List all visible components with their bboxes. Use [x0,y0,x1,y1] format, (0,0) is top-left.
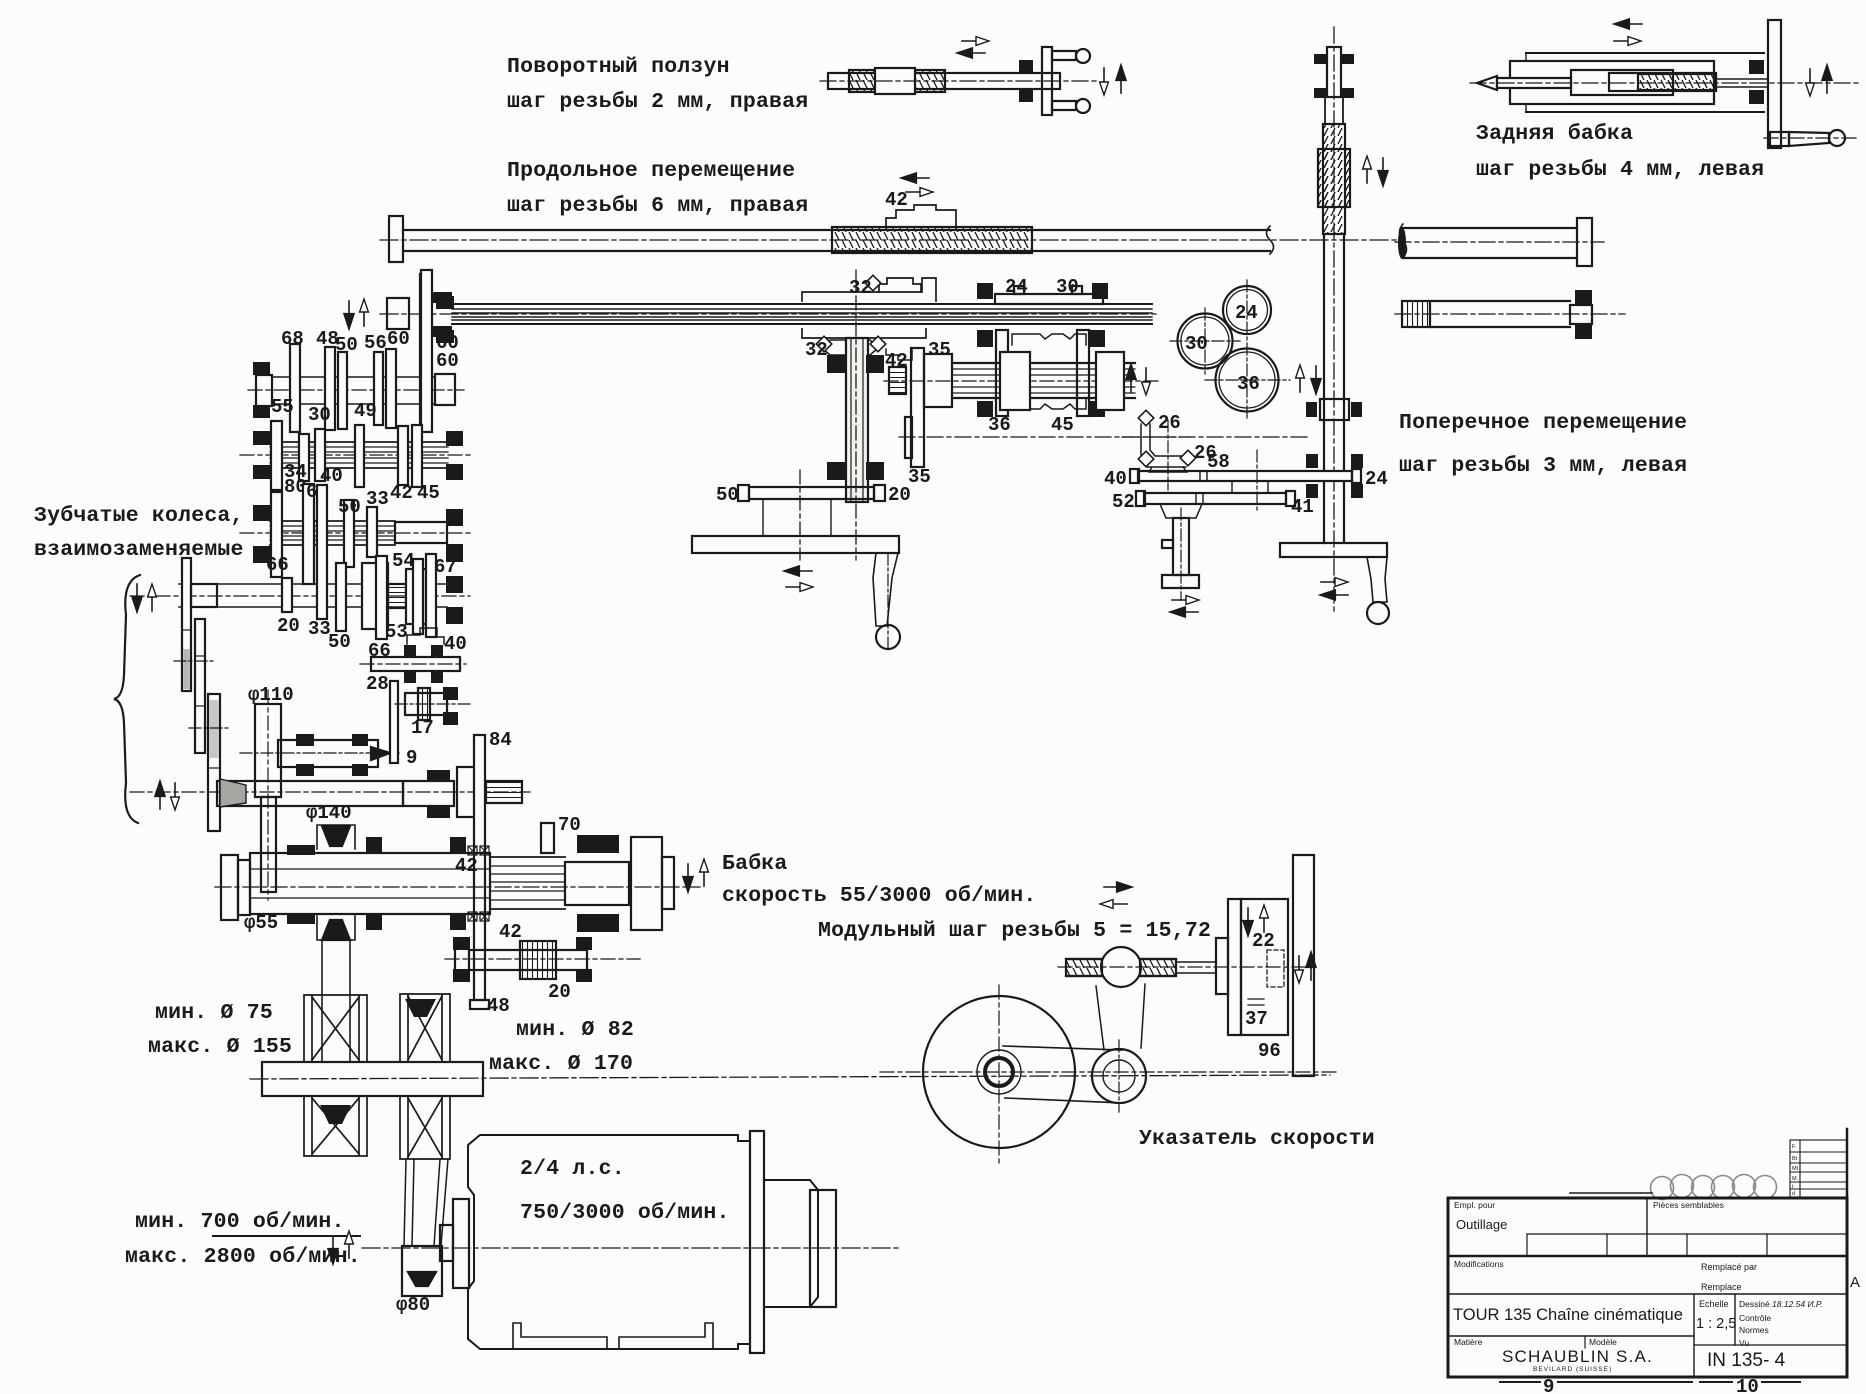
gear 68 [290,344,300,432]
half nut 42 on lead screw [886,205,956,228]
svg-text:d: d [1792,1191,1795,1197]
svg-text:макс. 2800 об/мин.: макс. 2800 об/мин. [125,1245,361,1269]
svg-text:66: 66 [266,554,289,576]
nut on screw [875,68,915,94]
svg-text:18.12.54 И.Р.: 18.12.54 И.Р. [1772,1299,1823,1309]
hub and pinion below [1160,504,1202,518]
svg-text:60: 60 [436,350,459,372]
gearbox bearings [977,330,993,347]
svg-text:35: 35 [908,466,931,488]
shaft II splined [240,396,470,504]
lower gear shaft 48/20 [445,937,640,1003]
svg-text:Contrôle: Contrôle [1739,1313,1771,1323]
left cap phi55 [221,855,238,920]
arrow up filled [1116,66,1125,93]
phi110 pulley column [248,684,294,900]
gear housing 96 [1216,938,1228,994]
gear 28 thin [390,681,398,763]
belt down to motor pulley [328,1159,448,1316]
gear 50 [344,500,354,567]
svg-text:Normes: Normes [1739,1325,1769,1335]
change gear B [195,619,205,753]
cross slide lever [1367,557,1387,602]
gear 66 left [271,492,282,577]
svg-text:2/4 л.с.: 2/4 л.с. [520,1157,625,1181]
gearbox shaft splines [952,362,1135,364]
svg-text:750/3000 об/мин.: 750/3000 об/мин. [520,1201,730,1225]
gear 50 [338,352,347,429]
tailstock body [1470,19,1860,148]
svg-text:35: 35 [928,339,951,361]
half-nut 32 upper [879,278,921,292]
right shaft [565,862,629,905]
svg-text:60: 60 [387,328,410,350]
svg-text:50: 50 [328,631,351,653]
svg-text:41: 41 [1291,496,1314,518]
column body [1323,234,1325,543]
gear circles 24 30 36 [1170,280,1290,418]
arrows at brace bottom [155,782,164,809]
arrows travel [1615,19,1642,28]
bearing blocks [1019,60,1033,74]
svg-text:32: 32 [805,339,828,361]
pulley A lower X [304,1096,367,1156]
title block frame [1448,1198,1847,1377]
svg-text:F.: F. [1792,1144,1797,1150]
svg-text:Modifications: Modifications [1454,1259,1504,1269]
svg-text:84: 84 [489,729,512,751]
black V belt pulley A lower [320,1105,351,1124]
svg-text:70: 70 [558,814,581,836]
svg-text:40: 40 [444,633,467,655]
motor pulley [453,1199,469,1288]
revision mini table [1790,1140,1847,1197]
arrow down open [1100,68,1109,95]
worm wheel 35 [911,348,924,467]
svg-text:32: 32 [849,277,872,299]
svg-text:26: 26 [1194,442,1217,464]
gear 50 [336,563,346,631]
nut block [1318,149,1350,207]
flange [457,767,475,817]
svg-text:шаг резьбы 3 мм, левая: шаг резьбы 3 мм, левая [1399,454,1687,478]
crank handle [1770,132,1789,146]
black V belt pulley B top [405,999,436,1017]
big flange [631,837,662,930]
svg-text:50: 50 [338,496,361,518]
svg-text:Pièces semblables: Pièces semblables [1653,1200,1724,1210]
threaded section [1324,97,1326,124]
half-nut 32 lower with diamonds [822,340,878,355]
svg-text:BEVILARD (SUISSE): BEVILARD (SUISSE) [1533,1366,1612,1373]
svg-text:30: 30 [1185,333,1208,355]
splined end [486,781,522,803]
arrows travel [962,37,989,46]
arrows above cluster [344,301,353,328]
svg-text:28: 28 [366,673,389,695]
svg-text:40: 40 [1104,468,1127,490]
svg-text:42: 42 [499,921,522,943]
phi80 pulley [402,1246,442,1296]
svg-text:22: 22 [1252,930,1275,952]
gear 49 [355,425,364,487]
svg-text:TOUR 135 Chaîne cinématique: TOUR 135 Chaîne cinématique [1453,1306,1683,1324]
svg-text:φ80: φ80 [396,1294,430,1316]
svg-text:SCHAUBLIN S.A.: SCHAUBLIN S.A. [1502,1347,1653,1366]
shaft III splined [240,481,470,584]
svg-text:1 : 2,5: 1 : 2,5 [1696,1316,1736,1332]
svg-text:54: 54 [392,550,415,572]
cross slide base plate [1280,543,1387,557]
splined shaft far right [1395,290,1625,339]
bar 52-41 [1144,493,1286,504]
worm shaft splined [889,367,906,394]
gear 66 [376,556,387,639]
svg-text:24: 24 [1005,276,1028,298]
sheet right border [1846,1129,1849,1377]
svg-text:33: 33 [366,488,389,510]
shaft break mark [1267,226,1274,254]
svg-text:Зубчатые колеса,: Зубчатые колеса, [34,504,244,528]
70 stub [541,823,554,853]
shaft IV [130,485,470,691]
svg-text:37: 37 [1245,1008,1268,1030]
clutch 53 [406,569,426,624]
svg-text:30: 30 [1056,276,1079,298]
small cluster right [405,693,447,715]
svg-text:шаг резьбы 4 мм, левая: шаг резьбы 4 мм, левая [1476,158,1764,182]
column lower bearing foot [1320,399,1349,420]
svg-text:мин. Ø 82: мин. Ø 82 [516,1018,634,1042]
crank circle [1092,1049,1146,1103]
svg-text:20: 20 [548,981,571,1003]
top slide screw shaft [820,37,1126,115]
svg-text:10: 10 [1736,1376,1759,1394]
back gear shaft 9/17/28 [240,681,470,776]
wall plate [1293,855,1314,1076]
feed rod centerline [380,313,1160,315]
svg-text:φ140: φ140 [306,802,352,824]
svg-text:макс. Ø 170: макс. Ø 170 [489,1052,633,1076]
svg-text:56: 56 [364,332,387,354]
gear 20 [282,578,292,612]
lead screw centerline [380,239,1404,241]
svg-text:9: 9 [1543,1376,1554,1394]
svg-text:Vu: Vu [1739,1338,1749,1348]
svg-text:50: 50 [335,334,358,356]
svg-text:96: 96 [1258,1040,1281,1062]
svg-text:24: 24 [1235,302,1258,324]
splined gear hatched [388,584,406,608]
svg-text:Поворотный ползун: Поворотный ползун [507,55,730,79]
bearing blocks [1749,60,1764,74]
gear 48 [325,347,335,430]
svg-text:Продольное перемещение: Продольное перемещение [507,159,795,183]
apron lower bracket [802,329,926,338]
big wheel [923,996,1075,1148]
svg-text:Echelle: Echelle [1699,1299,1729,1309]
svg-text:IN 135- 4: IN 135- 4 [1707,1350,1786,1371]
apron upper bracket [802,278,936,301]
governor pulley [1101,947,1141,987]
svg-text:53: 53 [385,621,408,643]
feed rod left cap [387,298,409,329]
svg-text:Задняя бабка: Задняя бабка [1476,122,1633,146]
gear 42 [398,426,408,485]
svg-text:Outillage: Outillage [1456,1217,1507,1232]
spindle body [250,853,490,914]
svg-text:67: 67 [434,556,457,578]
svg-text:45: 45 [417,482,440,504]
fold marks 9 / 10 [1500,1381,1540,1383]
svg-text:шаг резьбы 2 мм, правая: шаг резьбы 2 мм, правая [507,90,808,114]
pulley B upper X [400,994,450,1062]
gear 84 tall plate [470,729,512,1017]
svg-text:Modèle: Modèle [1589,1337,1617,1347]
svg-text:мин. Ø 75: мин. Ø 75 [155,1001,273,1025]
svg-text:макс. Ø 155: макс. Ø 155 [148,1035,292,1059]
gear 60/60 tall on feed rod [421,270,432,432]
svg-text:A: A [1850,1274,1860,1291]
svg-text:42: 42 [455,855,478,877]
belt to governor pulley [1096,986,1104,1050]
svg-text:50: 50 [716,484,739,506]
svg-text:шаг резьбы 6 мм, правая: шаг резьбы 6 мм, правая [507,194,808,218]
svg-text:Bt: Bt [1792,1156,1798,1162]
svg-text:55: 55 [271,396,294,418]
svg-text:Поперечное перемещение: Поперечное перемещение [1399,411,1687,435]
pin lower [1052,101,1076,110]
feed rod left bearing plate [420,274,431,427]
svg-text:42: 42 [885,189,908,211]
lead screw shaft [403,229,1270,231]
arrows at 42 [902,173,929,182]
svg-text:Remplacé par: Remplacé par [1701,1262,1757,1272]
gear 54 [413,559,423,634]
arrow down open / up filled [1806,69,1815,96]
svg-text:42: 42 [390,482,413,504]
spindle bearings [287,845,315,855]
cross feed screw column top [1280,27,1389,624]
feed rod splined shaft [452,304,1152,324]
bracket plate [1042,47,1052,115]
svg-text:Указатель скорости: Указатель скорости [1139,1127,1375,1151]
svg-text:скорость 55/3000 об/мин.: скорость 55/3000 об/мин. [722,884,1036,908]
tailstock screw [1609,73,1716,91]
apron hand gear 50/20 bracket [692,470,911,650]
svg-text:49: 49 [354,400,377,422]
svg-text:Empl. pour: Empl. pour [1454,1200,1495,1210]
underline under 700 об/мин. [213,1235,360,1237]
link arm [1003,1046,1122,1050]
svg-text:Matière: Matière [1454,1337,1483,1347]
gear 67 [426,554,436,637]
svg-text:Бабка: Бабка [722,852,788,876]
centerline [1470,82,1860,84]
drum [362,563,388,629]
svg-text:45: 45 [1051,414,1074,436]
apron vertical plate [846,338,868,502]
change gears [174,619,230,831]
svg-text:взаимозаменяемые: взаимозаменяемые [34,538,244,562]
svg-text:φ110: φ110 [248,684,294,706]
svg-text:24: 24 [1365,468,1388,490]
clutch hub 33 [367,507,377,557]
apron bearing blocks [827,355,845,373]
intermediate shaft [130,767,530,818]
pin upper [1052,51,1076,60]
gear 55 [271,421,282,490]
crossed bearing marks [468,846,477,855]
svg-text:68: 68 [281,328,304,350]
svg-text:Модульный шаг резьбы 5 = 15,72: Модульный шаг резьбы 5 = 15,72 [818,919,1211,943]
elbow 26 selector [1141,424,1186,467]
svg-text:52: 52 [1112,491,1135,513]
change gear bracket brace [114,575,140,823]
bar 40-58-24 [1138,471,1352,481]
feed gearbox [952,276,1150,436]
pulley lower half [317,916,355,940]
belt lines from spindle pulley [321,940,323,1062]
svg-text:30: 30 [308,404,331,426]
svg-text:20: 20 [888,484,911,506]
svg-text:φ55: φ55 [244,912,278,934]
svg-text:мин. 700 об/мин.: мин. 700 об/мин. [135,1210,345,1234]
gear 56 [374,352,383,425]
svg-text:9: 9 [406,747,417,769]
shaft I [248,270,464,432]
gear 66 second [303,484,314,584]
gear 34 [299,434,309,481]
gear 33 tall [317,485,327,619]
lever with ball [873,553,898,626]
pulley B lower X [400,1096,450,1159]
arrows at brace top [132,584,141,611]
worm shaft threaded [1066,959,1102,976]
svg-text:36: 36 [988,414,1011,436]
svg-text:Dessiné: Dessiné [1739,1299,1770,1309]
center tip [1477,76,1497,90]
hub bar [262,1062,483,1096]
title block texts [1453,1200,1860,1373]
splined mid section [490,857,565,909]
svg-text:48: 48 [487,995,510,1017]
binder ring marks [1651,1175,1777,1200]
change gear C [208,694,220,831]
connecting links between bars [1231,481,1233,493]
cross slide gear bars [899,410,1388,616]
svg-text:36: 36 [1237,373,1260,395]
svg-text:20: 20 [277,615,300,637]
lead screw left flange [389,216,403,262]
gear 60 [386,349,396,428]
svg-text:26: 26 [1158,412,1181,434]
svg-text:Remplace: Remplace [1701,1282,1742,1292]
shaft V stub below [360,628,466,695]
pulley A upper X [304,994,450,1159]
tailstock quill [1571,70,1673,95]
gear 30 [315,429,325,481]
motor feet [513,1323,607,1349]
change gear A tall [182,558,191,691]
clutch body top [1012,334,1086,345]
bearing blocks on column at bars [1306,454,1318,468]
tailstock screw shaft right [1403,227,1577,229]
svg-text:Mt: Mt [1792,1166,1799,1172]
lead screw thread section [832,227,1032,253]
handwheel plate [1768,20,1781,148]
svg-text:M.: M. [1792,1176,1799,1182]
hub on shaft IV [191,584,217,607]
gear 45 [412,425,422,487]
